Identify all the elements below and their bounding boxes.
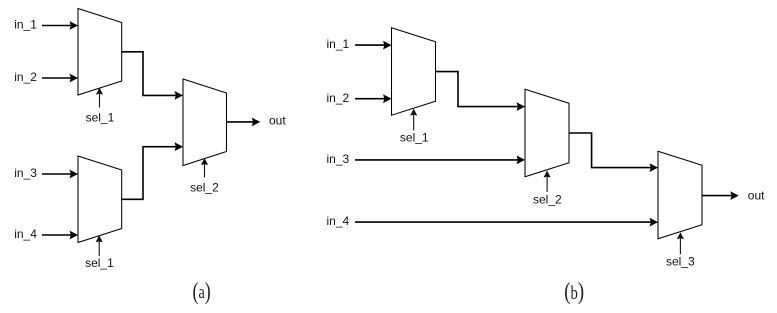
svg-text:in_2: in_2 (327, 91, 350, 105)
wire in_2 to U1 (42, 74, 78, 83)
wire in_1 to U1 (42, 21, 78, 30)
svg-text:sel_1: sel_1 (85, 256, 114, 270)
svg-text:in_1: in_1 (327, 37, 350, 51)
svg-text:(a): (a) (193, 279, 211, 305)
mux U5 (second 2:1 mux, diagram b) (525, 89, 569, 177)
svg-text:sel_3: sel_3 (666, 255, 695, 269)
svg-text:(b): (b) (564, 279, 584, 305)
sel_1 arrow into U4 (410, 109, 417, 131)
wire U4 output to U5 input 1 (436, 72, 526, 111)
wire U1 output to U3 input 1 (122, 52, 183, 100)
svg-text:sel_2: sel_2 (533, 193, 562, 207)
mux U6 (third 2:1 mux, diagram b) (658, 151, 702, 239)
svg-text:in_3: in_3 (14, 166, 37, 180)
wire U2 output to U3 input 2 (122, 142, 183, 199)
mux U1 (top-left 2:1 mux, diagram a) (78, 9, 122, 96)
sel_3 arrow into U6 (677, 232, 684, 254)
svg-text:sel_1: sel_1 (86, 111, 115, 125)
sel_2 arrow into U3 (201, 158, 208, 178)
svg-text:in_2: in_2 (14, 70, 37, 84)
sel_2 arrow into U5 (544, 171, 551, 192)
mux U3 (output 2:1 mux, diagram a) (183, 79, 227, 166)
wire in_1 to U4 (355, 41, 392, 50)
mux U2 (bottom-left 2:1 mux, diagram a) (78, 156, 122, 243)
wire in_2 to U4 (355, 94, 392, 103)
svg-text:in_4: in_4 (327, 214, 350, 228)
mux U4 (first 2:1 mux, diagram b) (392, 28, 436, 116)
svg-text:in_3: in_3 (327, 152, 350, 166)
wire in_4 to U6 (355, 218, 658, 227)
svg-text:sel_2: sel_2 (190, 181, 219, 195)
wire U6 output to out (diagram b) (702, 191, 739, 200)
wire in_4 to U2 (42, 231, 78, 240)
svg-text:out: out (269, 114, 286, 128)
wire U5 output to U6 input 1 (569, 133, 658, 172)
sel_1 arrow into U2 (96, 235, 103, 256)
svg-text:in_1: in_1 (14, 18, 37, 32)
svg-text:sel_1: sel_1 (400, 131, 429, 145)
wire U3 output to out (diagram a) (227, 118, 261, 127)
wire in_3 to U5 (355, 156, 525, 165)
sel_1 arrow into U1 (96, 88, 103, 108)
svg-text:out: out (748, 188, 765, 202)
wire in_3 to U2 (42, 170, 78, 179)
svg-text:in_4: in_4 (14, 227, 37, 241)
